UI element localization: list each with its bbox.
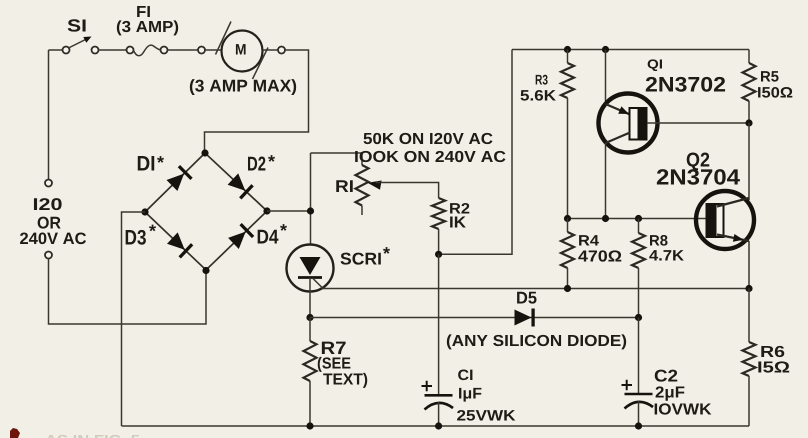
label C1 [458, 370, 472, 381]
node Q1 collector / R5 [745, 119, 752, 126]
resistor R4 [567, 219, 569, 233]
terminal AC lower [45, 252, 52, 259]
wire bridge left vertex to DC minus rail [122, 212, 146, 426]
node R2/C1 junction [435, 251, 442, 258]
node bridge right vertex [263, 207, 270, 214]
capacitor C2 [622, 318, 654, 427]
resistor R7 [309, 318, 311, 342]
label R1 [336, 180, 352, 192]
label D2* [248, 157, 265, 171]
label Q2 [687, 153, 710, 171]
label R3 [536, 75, 548, 85]
transistor Q1 [599, 50, 750, 219]
label R8 value [649, 250, 684, 260]
wire collector node to Q2 [748, 123, 750, 200]
node C1 ground [435, 422, 442, 429]
transistor Q2 [696, 191, 754, 289]
wire bridge right vertex to SCR anode node [267, 210, 311, 212]
caption marker (red) [10, 428, 20, 438]
wire wiper to R2 [376, 183, 439, 199]
node R8 / D5 junction [635, 314, 642, 321]
fuse F1 [127, 45, 168, 56]
node base bus R4 [564, 215, 571, 222]
switch S1 [63, 37, 99, 54]
wire bottom ground rail [122, 425, 750, 427]
node gate wire / Q2 emitter [745, 285, 752, 292]
label Q1 [648, 59, 662, 71]
label motor rating (3 AMP MAX) [190, 79, 296, 95]
label R7 (SEE TEXT) [322, 342, 346, 354]
label D4* [258, 230, 279, 244]
label C1 value [459, 388, 481, 402]
diode D1 [167, 174, 185, 191]
caption text fragment [45, 435, 139, 438]
node C2 ground [635, 422, 642, 429]
node bridge bottom vertex [202, 267, 209, 274]
label R5 value [758, 87, 792, 98]
label R6 [761, 346, 784, 357]
label R6 value [758, 361, 789, 372]
label R5 [761, 71, 779, 81]
label R2 value 1K [450, 216, 466, 227]
wire SCR gate to Q2 emitter node [322, 288, 749, 290]
label SCR1* [341, 253, 381, 265]
node bridge top vertex [201, 149, 208, 156]
wire top-left segment [49, 49, 63, 51]
resistor R6 [748, 289, 750, 343]
node SCR anode / bridge junction [307, 207, 314, 214]
label 120 OR 240VAC [34, 198, 62, 210]
wire S1 to F1 [99, 49, 127, 51]
label D5 note (ANY SILICON DIODE) [447, 334, 626, 349]
node SCR cathode junction [306, 314, 313, 321]
label F1 value (3 AMP) [117, 20, 178, 35]
node base bus Q1 base [602, 215, 609, 222]
diode D3 [167, 232, 185, 249]
resistor R5 [748, 50, 750, 64]
label D5 [517, 292, 536, 304]
wire R1 bottom stub [361, 206, 363, 216]
wire base bus [568, 218, 708, 220]
label F1 [137, 6, 150, 17]
capacitor C1 [422, 254, 454, 426]
label D1* [138, 156, 154, 170]
label R2 [450, 203, 469, 213]
wire motor to right corner [205, 50, 309, 150]
resistor R3 [567, 50, 569, 64]
node rail Q1 emitter [602, 46, 609, 53]
diode D4 [228, 232, 246, 249]
label C2 [655, 370, 677, 382]
node bridge left vertex [141, 208, 148, 215]
label S1 [68, 19, 86, 31]
diode D2 [228, 173, 246, 190]
label R3 value [521, 90, 556, 101]
resistor R8 [638, 219, 640, 234]
wiper arrow R1 [368, 181, 382, 190]
wire bridge edges [145, 153, 267, 270]
wire AC lower to bridge bottom [49, 259, 207, 325]
node R7 ground [306, 422, 313, 429]
node base bus R8 [635, 215, 642, 222]
label R4 [579, 235, 599, 245]
label R1 value 50K/100K [364, 133, 493, 144]
resistor R2 [432, 198, 445, 229]
node R4 to gate wire [564, 285, 571, 292]
wire F1 to motor [168, 49, 199, 51]
wire R1 top [311, 153, 363, 165]
terminal AC upper [45, 180, 52, 187]
label C2 value [656, 386, 685, 400]
label D3* [126, 230, 146, 245]
label R4 value [578, 250, 621, 261]
motor M [198, 22, 285, 80]
wire D5 horizontal [310, 317, 639, 319]
label Q1 part 2N3702 [646, 77, 725, 92]
wire top supply rail [512, 49, 749, 51]
wire R2 bottom to rail riser [439, 50, 512, 255]
diode D5 [515, 310, 532, 326]
potentiometer R1 [356, 165, 369, 206]
label R8 [650, 235, 668, 246]
node rail R3 [564, 46, 571, 53]
label Q2 part 2N3704 [657, 169, 740, 185]
wire left vertical from switch [48, 50, 50, 180]
SCR1 [287, 245, 334, 318]
wire SCR anode vertical [310, 153, 312, 245]
